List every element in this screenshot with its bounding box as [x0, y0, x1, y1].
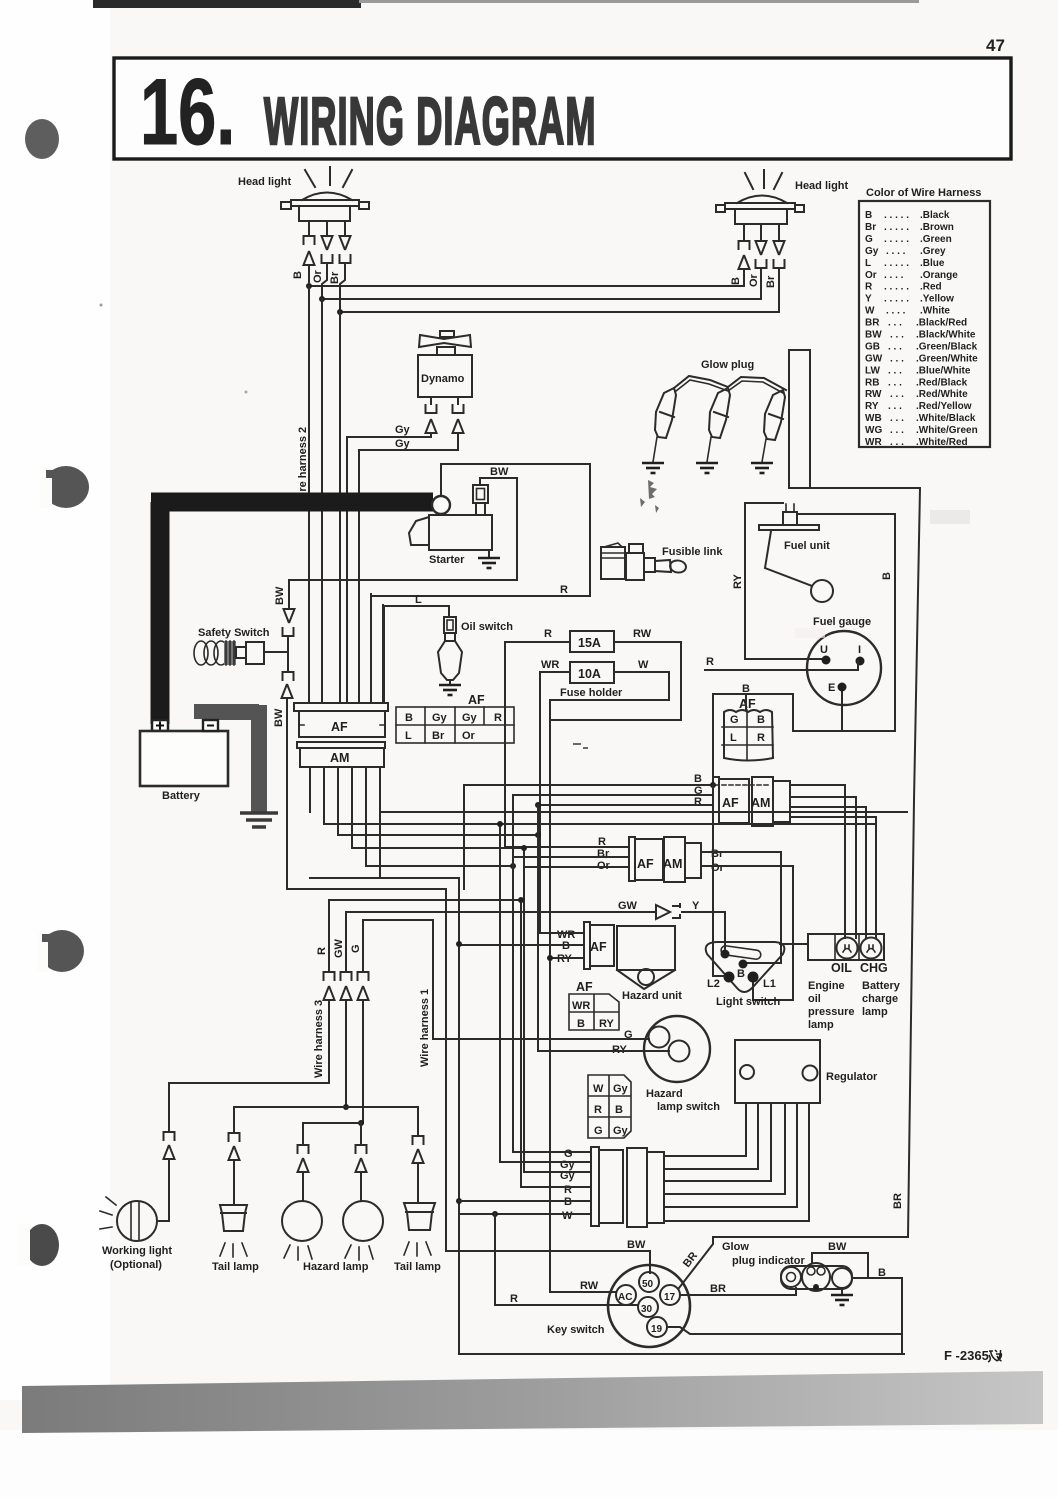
title box — [114, 58, 1011, 159]
svg-text:16.: 16. — [140, 61, 235, 165]
svg-text:R: R — [694, 796, 702, 808]
wire L down — [382, 605, 384, 703]
wire R to fuel gauge I — [705, 661, 858, 670]
battery box — [140, 731, 228, 786]
svg-text:Dynamo: Dynamo — [421, 373, 465, 385]
svg-text:Hazard unit: Hazard unit — [622, 990, 682, 1002]
terminal 19 — [647, 1317, 667, 1337]
svg-text:Gy: Gy — [613, 1125, 629, 1137]
BW long wire from safety switch — [287, 889, 650, 1273]
wire lamp feed GW — [234, 1106, 418, 1108]
ground battery cable — [240, 813, 278, 827]
glow plug bus wire — [674, 376, 786, 390]
svg-text:AF: AF — [331, 720, 348, 734]
wire R to 15A — [505, 642, 570, 847]
svg-text:AF: AF — [576, 980, 593, 994]
svg-text:Tail lamp: Tail lamp — [212, 1261, 259, 1273]
vertical x538 RY — [537, 805, 539, 1051]
svg-text:Hazard lamp: Hazard lamp — [303, 1261, 369, 1273]
svg-text:BR: BR — [710, 1283, 726, 1295]
svg-text:10A: 10A — [578, 667, 601, 681]
hazard lamp 1 — [282, 1201, 322, 1241]
staircase S2 — [324, 824, 876, 1162]
indicator ground — [841, 1288, 843, 1294]
svg-text:Gy: Gy — [395, 424, 411, 436]
svg-text:Safety Switch: Safety Switch — [198, 627, 270, 639]
svg-text:RY: RY — [599, 1018, 615, 1030]
svg-text:WB. . ..White/Black: WB. . ..White/Black — [865, 413, 976, 424]
oil switch body — [444, 617, 456, 633]
fuel unit plate — [759, 525, 819, 530]
svg-text:G: G — [350, 944, 362, 953]
battery negative cable (grey) — [202, 705, 259, 812]
working light — [117, 1201, 157, 1241]
bus wire Br headlights — [340, 311, 779, 313]
indicator right circle — [832, 1268, 852, 1288]
wire B row — [459, 1200, 591, 1202]
wire GW — [346, 911, 654, 913]
binder hole 4 — [18, 1224, 59, 1266]
connector pair Or (left hl) — [322, 236, 333, 250]
svg-text:Fusible link: Fusible link — [662, 546, 723, 558]
svg-text:BR: BR — [892, 1193, 904, 1209]
AM connector (main) — [297, 742, 385, 748]
wire starter terminal BW loop — [441, 464, 590, 596]
svg-text:R: R — [594, 1104, 602, 1116]
svg-text:AF: AF — [722, 796, 739, 810]
wire Gy2 from dynamo — [359, 433, 458, 450]
glow plug 2 — [709, 388, 730, 438]
binder hole 3 — [37, 930, 84, 972]
connector right part — [627, 1148, 647, 1227]
fuel unit top right / B wire top — [793, 514, 895, 731]
svg-text:Glow plug: Glow plug — [701, 359, 754, 371]
terminal AC — [616, 1285, 636, 1305]
svg-text:I: I — [858, 644, 861, 656]
svg-text:R: R — [494, 712, 502, 724]
fusible link lever — [655, 560, 671, 572]
svg-text:B: B — [694, 773, 702, 785]
wires out of AM bottom — [310, 767, 380, 878]
svg-text:47: 47 — [986, 36, 1005, 55]
svg-text:WR: WR — [572, 1000, 590, 1012]
svg-text:Oil switch: Oil switch — [461, 621, 513, 633]
svg-text:BW: BW — [274, 586, 286, 605]
legend box — [859, 201, 990, 447]
fuel unit stem — [783, 512, 797, 525]
tail lamp 2 — [404, 1203, 435, 1230]
glow plug feed loop wires — [789, 350, 920, 1237]
svg-text:Gy: Gy — [395, 438, 411, 450]
svg-text:WR. . ..White/Red: WR. . ..White/Red — [865, 437, 968, 448]
wire solenoid BW — [289, 478, 517, 580]
svg-text:pressure: pressure — [808, 1006, 854, 1018]
key switch circle — [608, 1265, 690, 1347]
OIL lamp circle — [837, 938, 858, 959]
BW bridge wire — [812, 1253, 868, 1278]
wire RY row — [550, 957, 584, 959]
dynamo terminal stubs — [431, 397, 458, 404]
svg-text:50: 50 — [642, 1279, 654, 1290]
bottom long wire — [459, 1353, 904, 1355]
terminal 30 — [638, 1297, 658, 1317]
AF box 1 — [713, 777, 719, 824]
svg-text:AF: AF — [468, 693, 485, 707]
CHG lamp circle — [861, 938, 882, 959]
svg-text:G: G — [594, 1125, 603, 1137]
connector pair Br (left hl) — [340, 236, 351, 250]
svg-text:Or: Or — [462, 730, 476, 742]
svg-text:R: R — [544, 628, 552, 640]
connector GW — [341, 972, 352, 981]
svg-text:Engine: Engine — [808, 980, 845, 992]
svg-text:RW: RW — [633, 628, 652, 640]
vertical x513 G — [512, 795, 514, 1152]
svg-text:lamp switch: lamp switch — [657, 1101, 720, 1113]
BR wire from top to indicator corner — [679, 1237, 908, 1288]
wire G harness net — [363, 920, 433, 1039]
svg-text:AF: AF — [590, 940, 607, 954]
svg-text:B: B — [615, 1104, 623, 1116]
connector left part — [591, 1147, 599, 1226]
svg-text:Y: Y — [692, 900, 700, 912]
svg-text:Or: Or — [312, 269, 324, 283]
svg-text:Working light: Working light — [102, 1245, 172, 1257]
wire G row — [513, 1151, 591, 1153]
connector pair Or (right hl) — [756, 241, 767, 255]
fuel gauge circle — [807, 631, 881, 705]
AF 2x2 connector table — [724, 710, 773, 761]
fuse 15A — [570, 631, 614, 652]
wire BR horizontal from 17 — [680, 1288, 796, 1295]
wire WR to 10A — [540, 672, 570, 933]
wire B net to L2 — [713, 785, 724, 976]
fuel unit float arm — [765, 531, 812, 586]
svg-text:(Optional): (Optional) — [110, 1259, 162, 1271]
terminal 50 — [639, 1272, 659, 1292]
wire Or down — [321, 299, 323, 703]
wire R from fusible link — [371, 595, 590, 597]
light switch body — [706, 942, 785, 992]
binder hole 2 — [40, 466, 89, 508]
safety switch wire right — [264, 651, 288, 653]
svg-text:AF: AF — [739, 697, 756, 711]
svg-text:Starter: Starter — [429, 554, 465, 566]
svg-text:AF: AF — [637, 857, 654, 871]
bus wire Or headlights — [322, 298, 761, 300]
staircase S6 — [310, 877, 459, 879]
head light wires down (left) — [309, 221, 345, 236]
svg-text:R: R — [560, 584, 568, 596]
wire feed to lamp block left — [780, 943, 808, 945]
svg-text:GW. . ..Green/White: GW. . ..Green/White — [865, 353, 978, 364]
wire Br down — [339, 312, 341, 703]
starter terminal circle — [432, 496, 450, 514]
wire B row — [459, 944, 584, 946]
ground glow plug 3 — [751, 463, 773, 473]
svg-text:Fuse holder: Fuse holder — [560, 687, 623, 699]
working light drop — [168, 1083, 170, 1132]
starter ground — [488, 550, 490, 557]
AF connector (WR B RY) — [584, 922, 590, 969]
starter body — [429, 515, 492, 550]
svg-text:B: B — [737, 968, 745, 980]
wire B from AF2x2 — [713, 694, 793, 785]
indicator middle circle — [802, 1263, 830, 1291]
head light rays (left) — [305, 167, 352, 187]
fuse 10A — [570, 662, 614, 683]
indicator body — [781, 1266, 852, 1289]
svg-text:RW: RW — [580, 1280, 599, 1292]
battery minus terminal — [203, 720, 218, 731]
svg-text:B: B — [292, 271, 304, 279]
glow plug 3 — [764, 390, 785, 440]
svg-text:lamp: lamp — [862, 1006, 888, 1018]
dynamo pulley — [440, 331, 454, 337]
wire RW from 15A — [550, 642, 681, 720]
svg-text:R: R — [316, 947, 328, 955]
dynamo connector 2 — [453, 404, 464, 413]
svg-text:Gy: Gy — [613, 1083, 629, 1095]
svg-text:B: B — [878, 1267, 886, 1279]
svg-text:OIL: OIL — [831, 961, 852, 975]
svg-text:AM: AM — [663, 857, 682, 871]
svg-text:Gy: Gy — [462, 712, 478, 724]
terminal 17 — [660, 1285, 680, 1305]
svg-text:BW: BW — [828, 1241, 847, 1253]
bus wire B headlights — [309, 285, 744, 287]
wire Y to light switch — [682, 912, 725, 953]
dynamo connector 1 — [426, 404, 437, 413]
fusible link connector assembly — [601, 547, 625, 579]
svg-text:Head light: Head light — [238, 176, 292, 188]
fuel unit float — [811, 580, 833, 602]
wire GW harness net — [345, 912, 347, 972]
scan noise specks — [573, 743, 588, 749]
hazard unit body — [617, 926, 675, 970]
svg-text:GW: GW — [333, 938, 345, 958]
wire R row — [521, 1186, 591, 1188]
svg-text:Fuel unit: Fuel unit — [784, 540, 830, 552]
wire L to oil switch — [383, 605, 449, 703]
svg-text:30: 30 — [641, 1304, 653, 1315]
head light lamp (right) — [737, 196, 787, 204]
starter solenoid terminal — [473, 485, 488, 503]
wire Gy1 down — [346, 437, 348, 703]
svg-text:lamp: lamp — [808, 1019, 834, 1031]
head light lamp (left) — [302, 193, 352, 201]
BW connector above safety switch — [288, 580, 290, 609]
svg-text:B: B — [881, 572, 893, 580]
svg-text:charge: charge — [862, 993, 898, 1005]
safety switch bellows — [194, 641, 208, 665]
dynamo body — [418, 355, 472, 397]
svg-text:Glow: Glow — [722, 1241, 749, 1253]
svg-text:Fuel gauge: Fuel gauge — [813, 616, 871, 628]
svg-text:Br: Br — [329, 271, 341, 284]
connector R — [324, 972, 335, 981]
staircase S1 BR — [380, 811, 907, 813]
glow plug 1 — [655, 388, 676, 438]
wire W row — [459, 1213, 591, 1215]
hazard lamp 2 drop — [360, 1123, 362, 1145]
wire R row AF2 — [505, 846, 629, 848]
top edge scan smudge — [93, 0, 361, 8]
svg-text:RW. . ..Red/White: RW. . ..Red/White — [865, 389, 968, 400]
svg-text:BW: BW — [627, 1239, 646, 1251]
svg-text:R: R — [757, 732, 765, 744]
light switch terminals — [721, 950, 730, 959]
lamp block — [808, 934, 884, 960]
tail lamp 1 — [220, 1205, 247, 1231]
wire G row AF1 — [513, 794, 713, 796]
svg-text:Wire harness 3: Wire harness 3 — [313, 1000, 325, 1078]
svg-text:R: R — [706, 656, 714, 668]
wire R harness net — [329, 900, 521, 1187]
ground glow plug 2 — [696, 463, 718, 473]
scan smudges under plug1 — [640, 480, 659, 513]
wire R row AF1 — [538, 804, 713, 806]
vertical x459 — [459, 878, 904, 1354]
svg-text:WIRING DIAGRAM: WIRING DIAGRAM — [264, 84, 597, 159]
staircase S3 — [338, 834, 538, 836]
svg-text:G: G — [730, 714, 739, 726]
connector pair Br (right hl) — [774, 241, 785, 255]
svg-text:oil: oil — [808, 993, 821, 1005]
svg-text:R: R — [510, 1293, 518, 1305]
svg-text:Or: Or — [748, 273, 760, 287]
svg-text:17: 17 — [664, 1292, 676, 1303]
staircase S4 — [352, 848, 524, 1172]
hazard lamp switch circle — [644, 1016, 710, 1082]
svg-text:E: E — [828, 682, 835, 694]
oil switch cone — [438, 641, 462, 680]
wire W from 10A — [550, 672, 669, 1292]
svg-text:Tail lamp: Tail lamp — [394, 1261, 441, 1273]
svg-text:L2: L2 — [707, 978, 720, 990]
AM box 2 — [664, 837, 685, 882]
BW connector below safety switch — [283, 672, 294, 681]
light switch slot — [720, 945, 761, 959]
svg-text:L: L — [415, 594, 422, 606]
head light wires down (right) — [744, 224, 779, 241]
tail lamp 2 drop — [417, 1107, 419, 1136]
wire from 19 to B — [667, 1327, 902, 1334]
terminal U — [822, 656, 831, 665]
wire Gy1 from dynamo — [347, 433, 431, 437]
wire Br from AM2 to light switch B — [701, 852, 781, 963]
svg-text:F -2365: F -2365 — [944, 1348, 989, 1363]
connector pair B (left hl) — [304, 236, 315, 245]
svg-text:Battery: Battery — [862, 980, 901, 992]
GW arrow connector — [656, 904, 680, 919]
svg-text:Head light: Head light — [795, 180, 849, 192]
svg-text:BW. . ..Black/White: BW. . ..Black/White — [865, 330, 976, 341]
svg-text:AM: AM — [751, 796, 770, 810]
battery plus terminal — [152, 720, 168, 731]
binder hole 1 — [25, 119, 59, 159]
AF connector (main) — [294, 703, 388, 711]
svg-text:Battery: Battery — [162, 790, 201, 802]
svg-text:W: W — [638, 659, 649, 671]
svg-text:15A: 15A — [578, 636, 601, 650]
wire R down — [370, 594, 372, 703]
AF WR/B/RY table — [569, 994, 619, 1030]
wire B down — [308, 286, 310, 703]
wire G to hazard switch — [433, 1038, 649, 1040]
wire R to key switch 30 — [495, 1214, 637, 1305]
terminal I — [856, 657, 865, 666]
svg-text:U: U — [820, 644, 828, 656]
ground glow plug 1 — [642, 463, 664, 473]
svg-text:B: B — [577, 1018, 585, 1030]
staircase S5 — [366, 865, 513, 867]
svg-text:Key switch: Key switch — [547, 1324, 605, 1336]
svg-text:Br: Br — [432, 730, 445, 742]
svg-text:L: L — [730, 732, 737, 744]
svg-text:AC: AC — [618, 1292, 632, 1303]
thick battery positive cable — [151, 502, 433, 724]
svg-text:AM: AM — [330, 751, 349, 765]
svg-text:GW: GW — [618, 900, 638, 912]
wire Gy row 1 — [500, 1161, 591, 1163]
wire Or from AM2 to light switch L1 — [701, 866, 793, 1000]
svg-text:W: W — [562, 1210, 573, 1222]
indicator left circle — [781, 1267, 801, 1287]
junction dots headlight bus — [306, 283, 312, 289]
svg-text:Light switch: Light switch — [716, 996, 780, 1008]
svg-text:Color of Wire Harness: Color of Wire Harness — [866, 187, 981, 199]
svg-text:BW: BW — [490, 466, 509, 478]
svg-text:W: W — [593, 1083, 604, 1095]
wire Gy row 2 — [524, 1171, 591, 1173]
svg-text:Wire harness 1: Wire harness 1 — [419, 989, 431, 1067]
regulator pin wires staircase — [664, 1103, 746, 1156]
head light rays (right) — [745, 170, 782, 189]
connector pair B (right hl) — [739, 241, 750, 250]
connector G — [358, 972, 369, 981]
svg-text:B: B — [757, 714, 765, 726]
oil switch ground — [449, 680, 451, 684]
AF box 2 — [629, 837, 635, 881]
svg-text:Hazard: Hazard — [646, 1088, 683, 1100]
wire Or row AF2 — [524, 866, 629, 868]
wire B row AF1 — [464, 785, 713, 889]
AF pin table — [396, 707, 514, 743]
svg-text:B: B — [730, 277, 742, 285]
svg-text:Br: Br — [597, 848, 610, 860]
fuel unit outline / RY wire — [745, 503, 826, 659]
terminal E — [838, 683, 847, 692]
svg-text:L: L — [405, 730, 412, 742]
wire B from indicator — [852, 1278, 902, 1354]
svg-text:WG. . ..White/Green: WG. . ..White/Green — [865, 425, 978, 436]
wires AM1 right to lamps — [790, 785, 876, 938]
hazard lamp 2 — [343, 1201, 383, 1241]
hazard lamp 1 drop — [302, 1123, 304, 1145]
svg-text:Gy: Gy — [432, 712, 448, 724]
svg-text:B: B — [405, 712, 413, 724]
regulator box — [735, 1040, 820, 1103]
wire Br row AF2 — [513, 856, 629, 858]
AM box 1 — [752, 777, 773, 826]
svg-text:L1: L1 — [763, 978, 776, 990]
wire RY to hazard switch — [538, 1050, 669, 1052]
svg-text:19: 19 — [651, 1324, 663, 1335]
svg-text:R: R — [564, 1184, 572, 1196]
wire WR row — [540, 932, 584, 934]
tail lamp 1 drop — [233, 1107, 235, 1133]
